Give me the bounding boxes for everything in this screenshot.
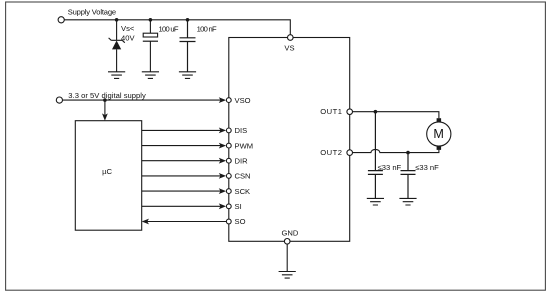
svg-text:≤33 nF: ≤33 nF (415, 163, 439, 172)
wire: digital supply down into uC (arrow) (102, 100, 108, 121)
svg-text:Supply Voltage: Supply Voltage (68, 8, 116, 17)
motor M (427, 118, 451, 150)
svg-text:100 uF: 100 uF (159, 25, 179, 34)
pin VS (284, 35, 294, 53)
wire: supply rail from terminal to VS pin (64, 20, 290, 35)
node: junction at zener (115, 18, 119, 22)
microcontroller uC box (75, 121, 141, 231)
svg-text:SCK: SCK (235, 187, 251, 196)
svg-text:DIR: DIR (235, 156, 249, 165)
label: <=33 nF left (378, 163, 402, 172)
svg-text:40V: 40V (121, 33, 135, 42)
wire: uC to CSN (arrow) (142, 173, 226, 179)
svg-text:VS: VS (284, 44, 294, 53)
capacitor 33nF left (368, 112, 383, 199)
node: junction digital supply to uC (103, 98, 107, 102)
capacitor C 100uF (143, 20, 158, 72)
zener diode Vs&lt;40V (109, 20, 125, 72)
svg-text:M: M (433, 127, 444, 141)
pin OUT2 (320, 148, 352, 157)
pin OUT1 (320, 107, 352, 116)
pin PWM (226, 141, 253, 150)
pin SO (226, 217, 245, 226)
wire: OUT1 to motor (353, 112, 439, 119)
ground (100uF) (142, 72, 159, 79)
svg-text:OUT1: OUT1 (320, 107, 342, 116)
svg-text:PWM: PWM (235, 141, 254, 150)
label: 100 uF (159, 25, 179, 34)
wire: uC to PWM (arrow) (142, 143, 226, 149)
label: 100 nF (197, 25, 217, 34)
svg-text:SI: SI (235, 202, 242, 211)
svg-text:Vs<: Vs< (121, 24, 135, 33)
pin SCK (226, 187, 250, 196)
wire: uC to DIR (arrow) (142, 158, 226, 164)
ground (100nF) (179, 72, 196, 79)
wire: uC to SCK (arrow) (142, 188, 226, 194)
pin VSO (226, 96, 250, 105)
label: 3.3 or 5V digital supply (68, 91, 146, 100)
pin CSN (226, 172, 250, 181)
ground (right 33nF cap) (399, 198, 416, 205)
ground (left 33nF cap) (367, 198, 384, 205)
wire: uC to SI (arrow) (142, 203, 226, 209)
svg-text:VSO: VSO (235, 96, 251, 105)
pin SI (226, 202, 241, 211)
svg-text:DIS: DIS (235, 126, 248, 135)
capacitor C 100nF (180, 20, 196, 72)
pin DIR (226, 156, 248, 165)
svg-text:SO: SO (235, 217, 246, 226)
node: junction OUT1 / left cap (374, 110, 378, 114)
label: <=33 nF right (415, 163, 439, 172)
label: Vs< 40V (121, 24, 135, 42)
svg-text:≤33 nF: ≤33 nF (378, 163, 402, 172)
wire: uC to DIS (arrow) (142, 128, 226, 134)
svg-text:3.3 or 5V digital supply: 3.3 or 5V digital supply (68, 91, 146, 100)
svg-text:100 nF: 100 nF (197, 25, 217, 34)
ground (zener) (108, 72, 125, 79)
svg-text:OUT2: OUT2 (320, 148, 342, 157)
wire: SO to uC (arrow into uC) (142, 219, 226, 225)
terminal: digital supply input (56, 97, 62, 103)
pin GND (282, 229, 299, 245)
wire: OUT2 to motor with hop over cap wire (353, 149, 439, 152)
svg-text:µC: µC (102, 167, 112, 176)
label: Supply Voltage (68, 8, 116, 17)
terminal: supply voltage input (58, 17, 64, 23)
node: junction OUT2 / right cap (406, 151, 410, 155)
wire: digital supply to VSO (63, 97, 227, 103)
capacitor 33nF right (401, 153, 416, 199)
pin DIS (226, 126, 247, 135)
svg-text:CSN: CSN (235, 172, 251, 181)
IC driver box (229, 38, 350, 242)
node: junction at 100nF (186, 18, 190, 22)
wire: GND pin to ground (286, 244, 288, 271)
ground (GND pin) (279, 272, 296, 279)
svg-text:GND: GND (282, 229, 299, 238)
node: junction at 100uF (149, 18, 153, 22)
